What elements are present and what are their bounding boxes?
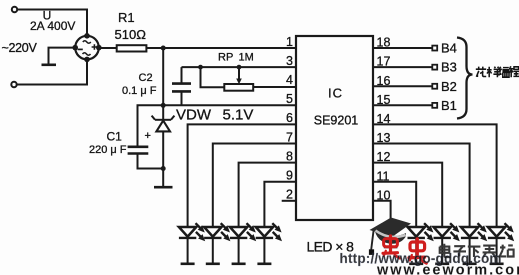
wire C2 top to pin3 line <box>181 67 183 84</box>
svg-text:5.1V: 5.1V <box>223 107 254 124</box>
resistor R1 <box>117 45 147 51</box>
LED D3 <box>230 223 256 264</box>
LED D1 <box>179 223 205 264</box>
pin 2 label <box>286 188 293 202</box>
potentiometer RP <box>224 84 253 91</box>
label B1 <box>441 98 457 113</box>
watermark graduation cap <box>369 218 411 255</box>
wire bridge plus to R1 <box>99 47 117 49</box>
svg-text:1: 1 <box>286 35 293 49</box>
wiper arrow RP <box>236 67 242 84</box>
label LED x8 <box>307 238 355 254</box>
brace pattern group <box>457 38 473 119</box>
wire supply rail down <box>162 48 164 105</box>
LED D4 <box>256 223 282 264</box>
label pattern programming (CJK approx) <box>476 66 519 77</box>
svg-text:R1: R1 <box>118 10 135 25</box>
label ~220V <box>2 41 38 55</box>
LED D7 <box>461 223 487 264</box>
svg-text:RP: RP <box>218 51 233 63</box>
wire pin 17 to B3 <box>373 66 432 68</box>
svg-text:4: 4 <box>286 73 293 87</box>
pin 4 label <box>286 73 293 87</box>
wire pin 12 to LED D6 <box>373 163 442 227</box>
watermark text dianzi xiazaizhan (CJK approx) <box>440 244 514 257</box>
wire pin 13 to LED D7 <box>373 144 470 228</box>
wire RP left lead <box>201 67 225 87</box>
ground bar at rail <box>154 186 173 189</box>
svg-text:1M: 1M <box>239 51 254 63</box>
LED D6 <box>434 223 460 264</box>
wire pin 16 to B2 <box>373 85 432 87</box>
zener diode VDW <box>152 105 175 168</box>
node C1 bottom junction <box>161 166 166 171</box>
wire pin3 line <box>182 66 297 68</box>
capacitor C2 <box>172 84 191 92</box>
wire rail to ground <box>162 169 164 187</box>
terminal B4 <box>432 46 437 51</box>
svg-text:SE9201: SE9201 <box>314 114 359 128</box>
svg-text:+: + <box>145 130 151 142</box>
node R1 output junction <box>161 46 166 51</box>
terminal B3 <box>432 65 437 70</box>
LED D8 <box>488 223 514 264</box>
wire pin 15 to B1 <box>373 104 432 106</box>
ground bar at bridge <box>42 64 57 67</box>
pin 18 label <box>377 36 391 50</box>
svg-text:B1: B1 <box>441 98 457 113</box>
wire bridge minus to ground <box>49 48 76 64</box>
label RP 1M <box>218 51 254 63</box>
label 510ohm <box>115 27 147 42</box>
svg-text:IC: IC <box>328 86 343 101</box>
wire RP right to pin4 <box>253 86 296 88</box>
wire pin 9 to LED D4 <box>264 182 296 227</box>
label plus C1 <box>145 130 151 142</box>
wire pin 2 stub <box>282 200 296 202</box>
label B3 <box>441 60 457 75</box>
node VDD rail junction <box>161 103 166 108</box>
label U <box>43 9 52 23</box>
pin 7 label <box>286 130 293 144</box>
svg-text:2: 2 <box>286 188 293 202</box>
svg-text:5: 5 <box>286 92 293 106</box>
pin 17 label <box>377 55 391 69</box>
svg-text:7: 7 <box>286 130 293 144</box>
pin 15 label <box>377 93 391 107</box>
label B2 <box>441 79 457 94</box>
wire pin 6 to LED D1 <box>188 124 296 227</box>
wire pin 11 to LED D5 <box>373 182 416 227</box>
node RP wiper junction <box>237 65 242 70</box>
wire pin 18 to B4 <box>373 47 432 49</box>
label R1 <box>118 10 135 25</box>
label C1 <box>107 130 123 144</box>
wire pin5 line VDD <box>163 104 296 106</box>
svg-text:~220V: ~220V <box>2 41 38 55</box>
capacitor C1 <box>128 147 149 154</box>
label C2 <box>139 72 153 84</box>
node RP left junction <box>198 65 203 70</box>
label VDW 5.1V <box>176 107 253 124</box>
pin 6 label <box>286 111 293 125</box>
pin 9 label <box>286 169 293 183</box>
wire bottom input to bridge <box>17 60 87 85</box>
wire top input to bridge <box>17 10 87 36</box>
label 220uF <box>89 144 127 156</box>
svg-text:C1: C1 <box>107 130 123 144</box>
svg-text:B3: B3 <box>441 60 457 75</box>
wire pin 14 to LED D8 <box>373 124 497 227</box>
wire pin 10 to ground <box>373 201 391 246</box>
svg-text:510Ω: 510Ω <box>115 27 147 42</box>
terminal bottom-left input <box>11 82 16 87</box>
pin 12 label <box>377 150 391 164</box>
svg-text:B2: B2 <box>441 79 457 94</box>
svg-text:8: 8 <box>286 149 293 163</box>
pin 14 label <box>377 112 391 126</box>
watermark url blue <box>340 251 502 266</box>
pin 16 label <box>377 74 391 88</box>
label 2A 400V <box>30 19 75 33</box>
watermark red bug 1 <box>383 236 400 258</box>
watermark url gray outline <box>376 262 519 275</box>
svg-text:0.1 μ F: 0.1 μ F <box>122 85 157 97</box>
svg-text:6: 6 <box>286 111 293 125</box>
pin 13 label <box>377 131 391 145</box>
label 0.1uF <box>122 85 157 97</box>
wire C1 top lead <box>138 105 164 146</box>
LED D2 <box>204 223 230 264</box>
pin 11 label <box>377 169 390 183</box>
pin 1 label <box>286 35 293 49</box>
IC U1 SE9201 <box>296 36 373 220</box>
svg-text:3: 3 <box>286 54 293 68</box>
pin 8 label <box>286 149 293 163</box>
svg-text:2A 400V: 2A 400V <box>30 19 75 33</box>
terminal B2 <box>432 84 437 89</box>
wire pin 7 to LED D2 <box>213 144 296 228</box>
ground bar pin 10 <box>384 246 398 249</box>
wire C1 bottom lead <box>138 154 164 168</box>
terminal top-left input <box>12 7 17 12</box>
label B4 <box>441 41 457 56</box>
pin 10 label <box>377 188 391 202</box>
svg-text:C2: C2 <box>139 72 153 84</box>
LED D5 <box>408 223 434 264</box>
wire C2 bottom to pin5 line <box>181 91 183 105</box>
watermark red bug 2 <box>409 239 426 263</box>
terminal B1 <box>432 103 437 108</box>
svg-text:www.eeworm.com: www.eeworm.com <box>376 262 519 275</box>
pin 3 label <box>286 54 293 68</box>
svg-text:220 μ F: 220 μ F <box>89 144 127 156</box>
svg-text:9: 9 <box>286 169 293 183</box>
wire pin 8 to LED D3 <box>239 163 296 227</box>
svg-text:VDW: VDW <box>176 107 212 124</box>
wire R1 to IC pin 1 <box>146 47 296 49</box>
svg-text:B4: B4 <box>441 41 457 56</box>
pin 5 label <box>286 92 293 106</box>
bridge rectifier U <box>72 33 101 62</box>
